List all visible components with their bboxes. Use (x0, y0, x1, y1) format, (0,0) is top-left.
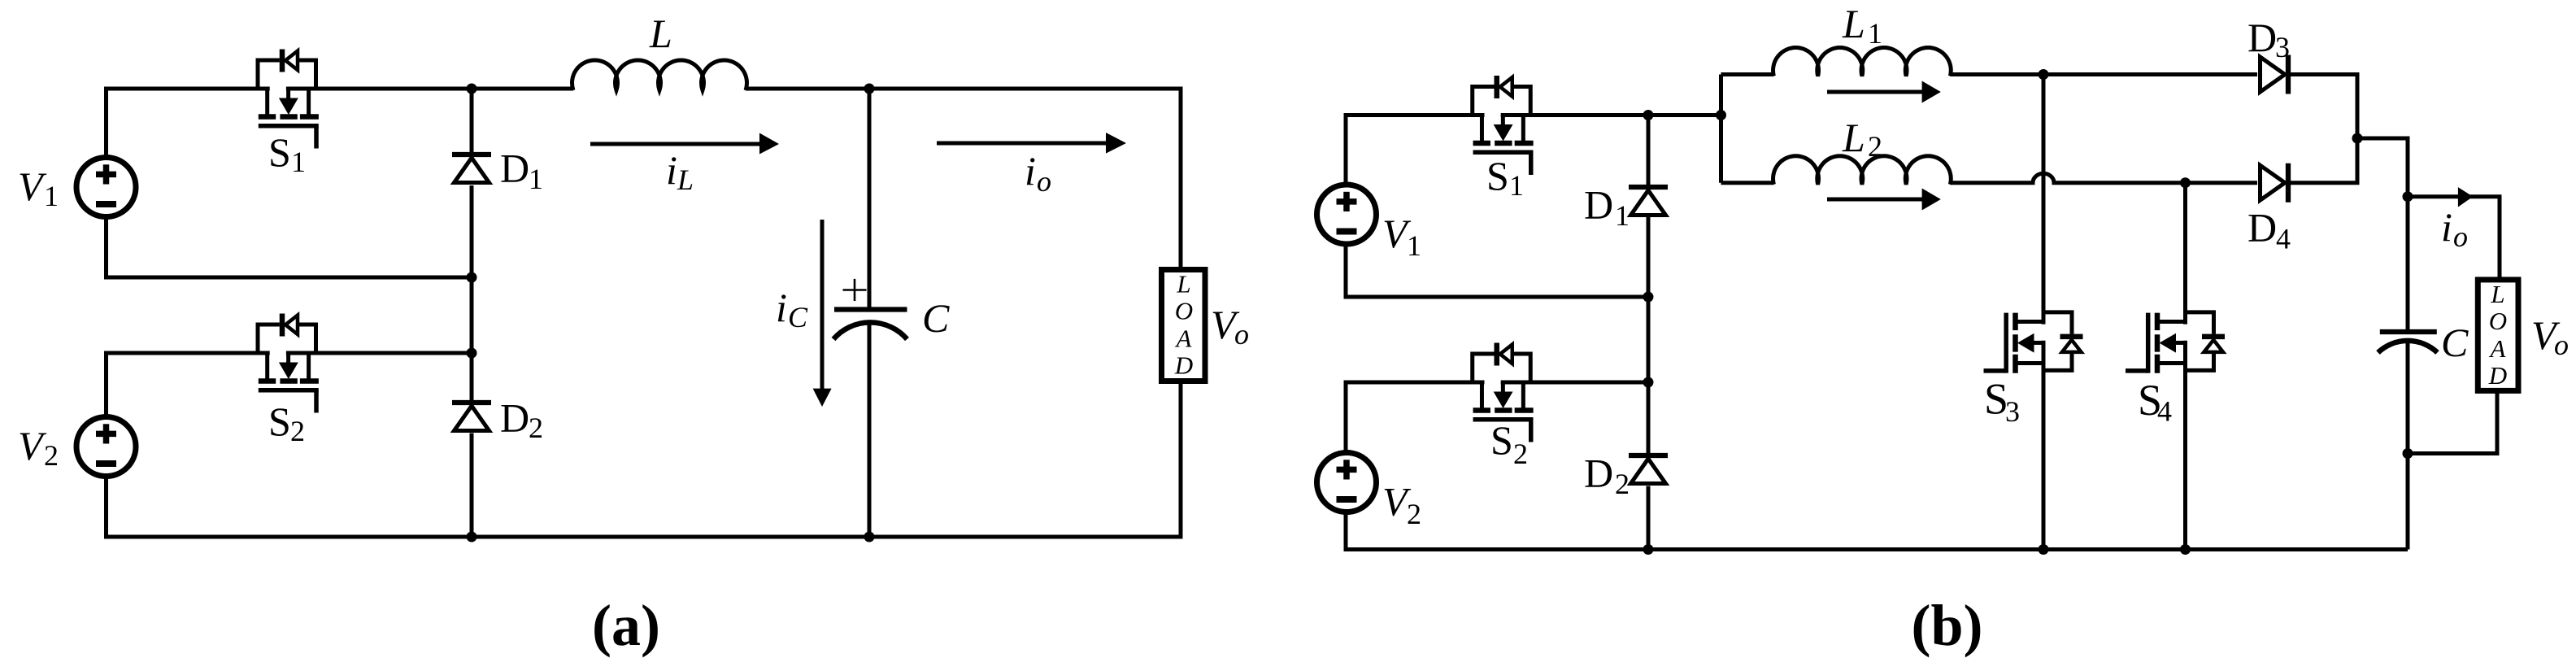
wire S2 source to diode string (1501, 381, 1648, 385)
arrow iL (590, 142, 762, 146)
svg-text:2: 2 (290, 415, 305, 447)
svg-text:C: C (788, 301, 808, 333)
inductor L1 (1773, 48, 1952, 76)
svg-text:2: 2 (1513, 438, 1528, 470)
wire S4 source (2183, 341, 2187, 550)
wire cap node to load bottom (2408, 391, 2497, 454)
source V2 (76, 417, 136, 477)
wire top rail left: V1 plus to S1 drain (107, 89, 270, 158)
node bottom-D2 (467, 532, 477, 542)
svg-text:A: A (2489, 334, 2507, 363)
mosfet S1 (258, 50, 319, 149)
node V1-return (467, 272, 477, 283)
wire S1 source to L-branch node (1501, 113, 1721, 117)
svg-text:L: L (1842, 115, 1865, 160)
node cap-load return (2403, 448, 2413, 459)
capacitor C (b) plates (2378, 332, 2438, 353)
inductor L2 (1773, 156, 1952, 185)
svg-text:D: D (2247, 205, 2277, 251)
wire V1 bottom row (1346, 245, 1648, 297)
source V1 (b) (1317, 185, 1377, 244)
svg-text:i: i (1025, 148, 1036, 194)
wire output node to cap corner (2357, 138, 2408, 197)
diode D1 (452, 155, 491, 183)
svg-text:O: O (1175, 296, 1193, 325)
svg-text:L: L (677, 163, 694, 196)
svg-text:(a): (a) (592, 593, 660, 658)
source V2 (b) (1317, 453, 1377, 512)
svg-text:1: 1 (1615, 199, 1630, 232)
svg-text:S: S (268, 129, 291, 175)
svg-text:S: S (1490, 417, 1513, 463)
diode D2 (b) (1629, 455, 1668, 484)
svg-text:i: i (776, 285, 787, 330)
diode D2 (452, 403, 491, 431)
svg-text:1: 1 (1407, 229, 1421, 262)
svg-text:L: L (2490, 280, 2504, 308)
wire diode string upper (1647, 115, 1651, 185)
svg-text:1: 1 (529, 163, 543, 195)
node bottom-S3 (2039, 544, 2049, 555)
svg-text:L: L (649, 11, 672, 56)
svg-text:L: L (1842, 1, 1865, 46)
wire branch vertical L1-L2 (1719, 75, 1723, 183)
node bottom-C (864, 532, 875, 542)
svg-text:C: C (2441, 320, 2469, 365)
mosfet S2 (b) (1473, 343, 1534, 442)
load text (1174, 270, 1193, 380)
source V1 (76, 158, 136, 217)
svg-text:o: o (1234, 318, 1249, 351)
capacitor plus polarity (843, 279, 867, 301)
node io-cap (2403, 191, 2413, 202)
wire L2 branch lead-in (1721, 181, 1774, 185)
svg-text:2: 2 (44, 439, 59, 472)
node S2-out (467, 348, 477, 359)
svg-text:C: C (922, 295, 950, 341)
wire top rail right: L to load corner (746, 89, 1181, 270)
capacitor C plates (833, 310, 907, 340)
inductor L (572, 60, 747, 90)
svg-text:2: 2 (529, 412, 543, 444)
svg-text:D: D (500, 146, 529, 191)
svg-text:i: i (2441, 204, 2452, 250)
wire top rail: S1 source to inductor L (286, 87, 573, 91)
svg-text:1: 1 (1509, 169, 1524, 202)
node bottom-D2b (1643, 544, 1654, 555)
wire S2 source to diode string (286, 351, 469, 355)
wire bottom rail (1346, 513, 2408, 550)
arrow io (b) on wire (2458, 187, 2473, 207)
wire bottom rail (107, 381, 1181, 537)
node S2b-out (1643, 377, 1654, 388)
diode D4 (2261, 163, 2289, 203)
wire S3 drain (2042, 75, 2046, 325)
svg-text:1: 1 (1868, 17, 1882, 50)
node V1b-return (1643, 292, 1654, 303)
wire L1 branch lead-in (1721, 72, 1774, 76)
wire cap node to bottom rail (2406, 454, 2410, 550)
svg-text:1: 1 (291, 146, 306, 178)
diode D1 (b) (1629, 187, 1668, 216)
wire D3 to output node corner (2291, 75, 2358, 137)
node S1b-D1 (1643, 110, 1654, 120)
svg-text:1: 1 (44, 180, 59, 212)
wire diode string middle: D1 to D2 through nodes (470, 185, 474, 400)
svg-text:L: L (1176, 270, 1190, 298)
svg-text:4: 4 (2157, 395, 2172, 428)
mosfet S3 (1984, 312, 2083, 373)
wire diode string lower: D2 to bottom rail (470, 434, 474, 538)
svg-text:A: A (1175, 325, 1193, 353)
svg-text:o: o (1037, 165, 1051, 198)
wire top rail left: V1 to S1 (1346, 115, 1485, 185)
svg-text:2: 2 (1615, 468, 1630, 500)
arrow iC (820, 220, 825, 390)
svg-text:2: 2 (1407, 498, 1421, 530)
wire io with corner down to load (2408, 197, 2500, 280)
load box (b) (2478, 280, 2518, 391)
wire diode string upper: top rail to D1 (470, 89, 474, 152)
load text (b) (2488, 280, 2507, 390)
mosfet S4 (2126, 312, 2225, 373)
wire capacitor branch lower: C to bottom rail (868, 320, 872, 537)
svg-text:S: S (1486, 153, 1509, 198)
svg-text:O: O (2489, 307, 2507, 335)
wire V1 bottom to D1-D2 node (107, 217, 470, 277)
arrow L2 current (1827, 198, 1923, 202)
wire L2 to hop over S3 line (1950, 173, 2257, 182)
svg-text:(b): (b) (1912, 593, 1983, 658)
diode D3 (2261, 55, 2289, 94)
wire S3 source (2042, 341, 2046, 550)
mosfet S2 (258, 314, 319, 413)
svg-text:4: 4 (2276, 223, 2291, 255)
svg-text:2: 2 (1868, 130, 1882, 163)
arrow L1 current (1827, 90, 1923, 94)
svg-text:o: o (2554, 329, 2569, 361)
wire diode string lower (1647, 486, 1651, 550)
wire diode string middle (1647, 217, 1651, 453)
wire S2 row left: V2 top to S2 drain (107, 353, 270, 416)
node bottom-S4 (2180, 544, 2191, 555)
arrow io (937, 142, 1107, 146)
svg-text:3: 3 (2005, 395, 2020, 428)
node D3-D4 output (2352, 133, 2363, 144)
wire capacitor branch upper: top rail to C (868, 89, 872, 307)
svg-text:i: i (666, 147, 677, 193)
svg-text:D: D (500, 395, 529, 441)
wire D4 to output node corner (2291, 138, 2358, 183)
svg-text:o: o (2453, 220, 2468, 253)
svg-text:3: 3 (2275, 31, 2290, 63)
node L-branch split (1716, 110, 1726, 120)
wire L1 to D3 (1950, 72, 2257, 76)
svg-text:D: D (1584, 451, 1613, 496)
mosfet S1 (b) (1473, 76, 1534, 175)
svg-text:D: D (2488, 361, 2507, 390)
wire cap branch lower (2406, 342, 2410, 454)
svg-text:D: D (2247, 15, 2277, 60)
node top-D1 (467, 84, 477, 94)
svg-text:D: D (1174, 351, 1193, 379)
wire S4 drain (2183, 183, 2187, 325)
wire S2 row left (1346, 382, 1485, 452)
wire cap branch upper (2406, 197, 2410, 329)
svg-text:S: S (268, 399, 291, 444)
load box (1162, 270, 1206, 381)
node L2-S4 (2180, 177, 2191, 188)
node top-C (864, 84, 875, 94)
node L1-S3 (2039, 69, 2049, 80)
svg-text:D: D (1584, 182, 1613, 228)
